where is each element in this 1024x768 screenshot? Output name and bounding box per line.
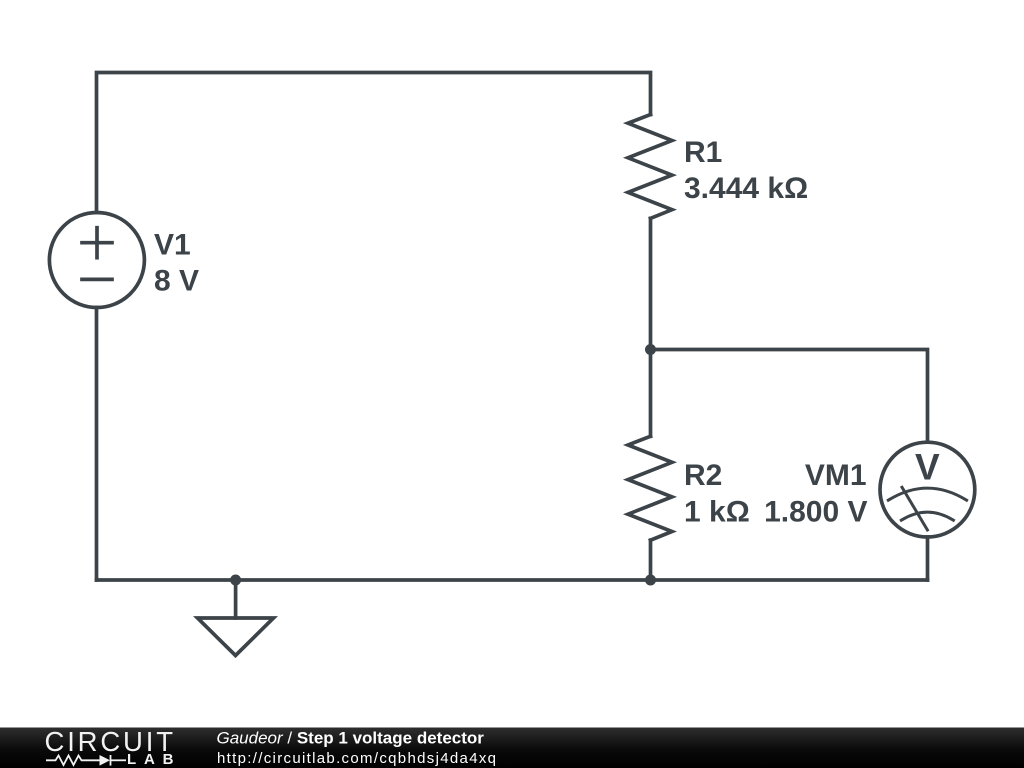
resistor R2 bbox=[628, 436, 672, 540]
svg-text:3.444 kΩ: 3.444 kΩ bbox=[684, 172, 808, 205]
svg-text:LAB: LAB bbox=[127, 751, 174, 768]
svg-text:VM1: VM1 bbox=[805, 459, 867, 492]
wire node A to VM1 bbox=[651, 350, 928, 443]
svg-text:1 kΩ: 1 kΩ bbox=[684, 495, 750, 528]
svg-text:V1: V1 bbox=[154, 228, 191, 261]
ground junction dot bbox=[230, 575, 241, 586]
wire bottom rail bbox=[97, 578, 928, 582]
voltage source V1 bbox=[49, 213, 144, 308]
wire V1 to bottom rail bbox=[95, 308, 99, 581]
wire node A to R2 bbox=[649, 350, 653, 437]
svg-text:8 V: 8 V bbox=[154, 264, 199, 297]
svg-text:V: V bbox=[915, 447, 940, 488]
wire VM1 to bottom rail bbox=[926, 537, 930, 580]
svg-text:Gaudeor / Step 1 voltage detec: Gaudeor / Step 1 voltage detector bbox=[217, 729, 485, 748]
voltmeter VM1 bbox=[880, 442, 975, 537]
svg-text:R2: R2 bbox=[684, 459, 722, 492]
wire R2 to bottom rail bbox=[649, 540, 653, 580]
wire top from V1 to R1 bbox=[97, 73, 651, 213]
svg-text:R1: R1 bbox=[684, 136, 722, 169]
ground bbox=[198, 580, 274, 656]
CircuitLab logo resistor-diode squiggle bbox=[46, 755, 126, 766]
footer bar bbox=[0, 728, 1024, 768]
node A junction dot bbox=[645, 344, 656, 355]
wire R1 to node A bbox=[649, 218, 653, 349]
svg-text:http://circuitlab.com/cqbhdsj4: http://circuitlab.com/cqbhdsj4da4xq bbox=[217, 750, 496, 767]
resistor R1 bbox=[628, 115, 672, 219]
node B junction dot bbox=[645, 575, 656, 586]
svg-text:1.800 V: 1.800 V bbox=[764, 495, 867, 528]
